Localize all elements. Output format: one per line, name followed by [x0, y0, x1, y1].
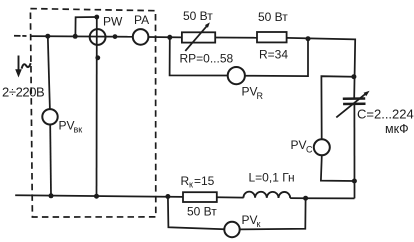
label RP=0...58: [180, 52, 234, 66]
svg-text:C=2...224: C=2...224: [357, 107, 414, 122]
wire: R to top-right corner and down to capacitor: [287, 38, 356, 98]
label R=34: [259, 48, 288, 62]
wire: PV_C bottom leg: [321, 155, 355, 181]
wire: R_K to inductor: [217, 196, 244, 198]
dashed enclosure (measurement unit boundary): [30, 9, 155, 217]
source AC tilde: [22, 63, 31, 68]
label PV_C: [291, 138, 314, 155]
wire: top feeder stubs at left edge: [14, 35, 27, 37]
wire: PV_K branch right leg: [240, 198, 306, 229]
wire: top main conductor from box edge through PW to PA: [31, 35, 133, 38]
wire: bottom main conductor to R_K: [31, 195, 183, 197]
wattmeter PW voltage-coil loop: [75, 17, 96, 36]
label PV_R: [242, 85, 264, 102]
label 50 Вт (R): [258, 10, 288, 24]
label PA: [134, 13, 149, 27]
node A: junction after PA: [167, 35, 172, 40]
node B: junction after R: [306, 36, 311, 41]
source arrow (adjustable AC): [15, 56, 22, 78]
label C=2...224: [357, 107, 414, 122]
svg-text:50 Вт: 50 Вт: [183, 9, 213, 23]
wire: PA to RP rheostat: [148, 36, 182, 38]
label L=0,1 Гн: [249, 171, 295, 185]
svg-text:2÷220В: 2÷220В: [2, 85, 44, 100]
node: R_K / PV_K junction: [165, 194, 170, 199]
svg-text:C: C: [306, 145, 313, 155]
resistor R_K rectangle: [183, 192, 217, 202]
voltmeter PV_C circle: [314, 139, 330, 155]
resistor R rectangle: [257, 32, 287, 42]
wire: bottom feeder stub at left edge: [15, 194, 30, 196]
label Rк=15: [181, 174, 215, 190]
svg-text:PV: PV: [242, 213, 258, 227]
wire: PV_vk vertical bottom leg: [49, 125, 52, 196]
label PW: [103, 15, 123, 29]
node: capacitor branch tap: [351, 74, 356, 79]
svg-text:=15: =15: [194, 174, 215, 188]
node: wattmeter loop tap: [73, 34, 78, 39]
wire: PV_C top leg: [321, 76, 354, 139]
node: lower-right junction: [352, 179, 357, 184]
node: below PW: [95, 55, 100, 60]
node: PW voltage-coil bottom: [94, 194, 99, 199]
svg-text:RP=0...58: RP=0...58: [180, 52, 234, 66]
svg-text:50 Вт: 50 Вт: [258, 10, 288, 24]
label PV_к: [242, 213, 261, 229]
wire: PW vertical voltage-coil lead to bottom conductor: [96, 17, 98, 196]
rheostat RP rectangle: [182, 32, 215, 42]
rheostat RP adjustment arrow: [185, 22, 210, 51]
label мкФ: [385, 122, 409, 136]
node: PV_vk bottom: [49, 193, 54, 198]
voltmeter PV_вк circle: [42, 109, 57, 124]
svg-text:к: к: [189, 180, 193, 190]
voltmeter PV_K circle: [224, 222, 239, 237]
label 50 Вт (R_K): [187, 204, 217, 218]
inductor L coil: [243, 192, 290, 198]
voltmeter PV_R circle: [228, 67, 245, 84]
label PV_вк: [59, 119, 83, 135]
capacitor C plates: [343, 99, 366, 105]
svg-text:L=0,1 Гн: L=0,1 Гн: [249, 171, 295, 185]
svg-text:PA: PA: [134, 13, 149, 27]
svg-text:PV: PV: [59, 119, 75, 133]
svg-text:PV: PV: [242, 85, 258, 99]
wire: PV_vk vertical top leg: [48, 36, 50, 109]
label 50 Вт (RP): [183, 9, 213, 23]
svg-text:R=34: R=34: [259, 48, 288, 62]
node: between PW and PA: [113, 34, 118, 39]
capacitor C adjustment arrow: [336, 91, 369, 118]
wire: PV_R branch left leg: [170, 37, 228, 75]
wire: right branch below capacitor: [353, 105, 355, 199]
wire: PV_K branch left leg: [168, 197, 225, 230]
ammeter PA circle: [133, 29, 149, 45]
wire: RP to R: [215, 37, 257, 39]
node: loop top corner: [94, 15, 99, 20]
node: L / PV_K junction: [303, 196, 308, 201]
node: source / PV_vk tap: [45, 34, 50, 39]
wire: bottom-right horizontal (L junction to right branch): [306, 197, 355, 199]
svg-text:к: к: [257, 219, 261, 229]
wire: PV_R branch right leg: [245, 39, 308, 76]
svg-text:R: R: [257, 91, 264, 101]
svg-text:50 Вт: 50 Вт: [187, 204, 217, 218]
svg-text:PV: PV: [291, 138, 307, 152]
svg-text:вк: вк: [74, 125, 83, 135]
svg-text:мкФ: мкФ: [385, 122, 409, 136]
wire: inductor to junction: [290, 197, 305, 199]
op: wattmeter PW circle: [90, 29, 106, 45]
svg-text:PW: PW: [103, 15, 123, 29]
label 2÷220В: [2, 85, 44, 100]
